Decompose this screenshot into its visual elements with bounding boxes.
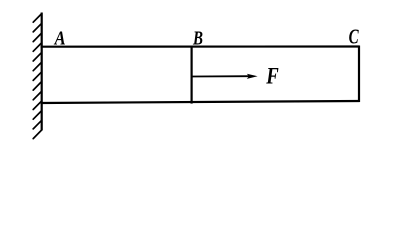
svg-text:A: A [53, 27, 66, 49]
svg-text:C: C [349, 25, 360, 49]
svg-text:B: B [192, 27, 203, 49]
svg-text:F: F [265, 64, 278, 89]
